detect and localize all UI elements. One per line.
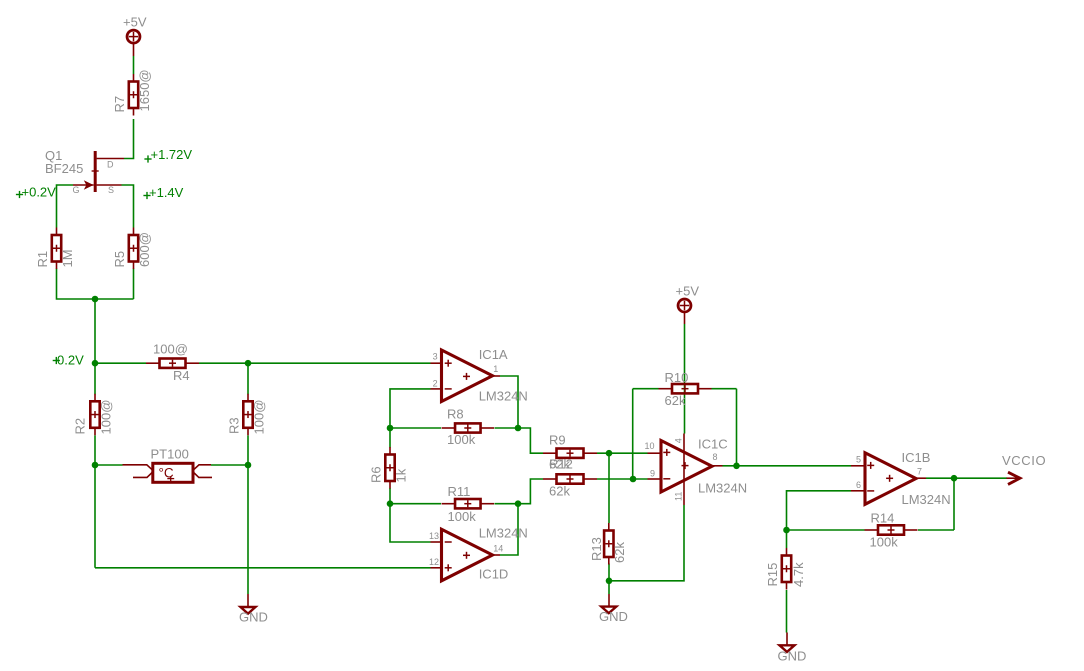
svg-text:R8: R8 [447, 406, 464, 421]
svg-text:R4: R4 [173, 368, 190, 383]
svg-text:0.2V: 0.2V [57, 352, 84, 367]
svg-text:4.7k: 4.7k [791, 562, 806, 587]
svg-text:100@: 100@ [252, 400, 267, 435]
svg-text:R12: R12 [549, 457, 573, 472]
svg-text:2: 2 [433, 378, 438, 388]
svg-text:7: 7 [917, 466, 922, 476]
svg-text:VCCIO: VCCIO [1002, 453, 1046, 468]
svg-text:IC1B: IC1B [902, 450, 931, 465]
svg-text:11: 11 [674, 492, 684, 501]
svg-text:14: 14 [493, 544, 503, 554]
svg-text:R14: R14 [871, 511, 895, 526]
svg-text:R1: R1 [35, 251, 50, 268]
svg-text:10: 10 [644, 441, 654, 451]
svg-text:GND: GND [239, 610, 268, 625]
svg-text:LM324N: LM324N [479, 525, 528, 540]
svg-text:8: 8 [713, 452, 718, 462]
svg-text:+5V: +5V [676, 284, 700, 299]
svg-text:100k: 100k [448, 509, 477, 524]
svg-text:GND: GND [599, 609, 628, 624]
svg-text:GND: GND [778, 648, 807, 663]
svg-text:LM324N: LM324N [479, 388, 528, 403]
svg-text:G: G [73, 185, 80, 195]
svg-text:R10: R10 [665, 370, 689, 385]
svg-text:12: 12 [429, 557, 439, 567]
svg-text:5: 5 [856, 454, 861, 464]
svg-text:1: 1 [493, 364, 498, 374]
svg-text:S: S [108, 185, 114, 195]
svg-text:6: 6 [856, 480, 861, 490]
svg-text:R15: R15 [765, 563, 780, 587]
svg-text:IC1A: IC1A [479, 347, 508, 362]
svg-text:62k: 62k [612, 542, 627, 563]
svg-text:R7: R7 [112, 96, 127, 113]
svg-text:R9: R9 [549, 432, 566, 447]
svg-text:R5: R5 [112, 251, 127, 268]
svg-text:100@: 100@ [99, 400, 114, 435]
svg-text:IC1D: IC1D [479, 566, 509, 581]
svg-text:9: 9 [650, 469, 655, 479]
svg-text:1M: 1M [60, 249, 75, 267]
svg-text:+1.4V: +1.4V [149, 185, 184, 200]
svg-text:PT100: PT100 [151, 447, 189, 462]
svg-text:R13: R13 [589, 537, 604, 561]
svg-text:IC1C: IC1C [698, 437, 728, 452]
svg-text:3: 3 [433, 352, 438, 362]
svg-text:+0.2V: +0.2V [22, 184, 57, 199]
svg-text:4: 4 [674, 438, 684, 443]
svg-text:62k: 62k [665, 393, 686, 408]
svg-text:R6: R6 [369, 466, 384, 483]
svg-text:LM324N: LM324N [902, 492, 951, 507]
svg-text:13: 13 [429, 531, 439, 541]
svg-text:62k: 62k [549, 483, 570, 498]
svg-text:600@: 600@ [137, 232, 152, 267]
svg-text:100k: 100k [447, 432, 476, 447]
svg-text:1650@: 1650@ [137, 69, 152, 111]
svg-text:LM324N: LM324N [698, 480, 747, 495]
svg-text:R2: R2 [73, 418, 88, 435]
svg-text:100k: 100k [870, 534, 899, 549]
svg-text:R11: R11 [448, 484, 471, 499]
svg-text:D: D [107, 160, 114, 170]
svg-text:100@: 100@ [153, 342, 188, 357]
svg-text:+1.72V: +1.72V [151, 147, 193, 162]
svg-text:+5V: +5V [123, 15, 147, 30]
svg-text:1k: 1k [394, 468, 409, 482]
svg-text:R3: R3 [227, 417, 242, 434]
svg-text:BF245: BF245 [45, 161, 83, 176]
